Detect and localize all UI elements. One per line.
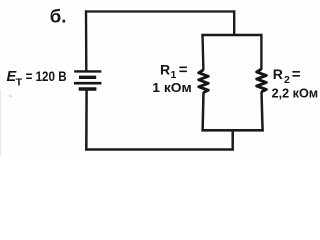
svg-text:R: R [160,61,170,77]
wire top [85,10,235,12]
svg-text:R: R [273,66,283,82]
wire R2 bottom lead [262,92,263,132]
resistor R1 [199,70,209,93]
label R1 [160,61,188,81]
wire R2 top lead [260,34,262,70]
wire R1 bottom lead [201,92,204,131]
wire inner bottom [201,129,263,132]
svg-text:T: T [16,77,23,89]
label R2 [273,66,301,86]
svg-text:1 кОм: 1 кОм [152,80,192,95]
resistor R2 [257,69,267,92]
wire R1 top lead [201,34,204,70]
wire left lower [85,90,88,151]
svg-text:2: 2 [284,74,290,86]
svg-text:= 120 В: = 120 В [26,68,67,84]
wire bottom [85,148,234,151]
label ET value [7,68,67,89]
svg-text:=: = [179,62,188,79]
wire bottom feed [231,129,234,151]
svg-text:2,2 кОм: 2,2 кОм [272,85,319,100]
battery ET [74,71,102,89]
wire inner top [201,34,262,36]
svg-text:=: = [292,66,301,83]
scan speck [9,95,12,97]
svg-text:б.: б. [50,5,67,26]
wire left upper [85,10,88,70]
wire top feed [233,10,235,36]
